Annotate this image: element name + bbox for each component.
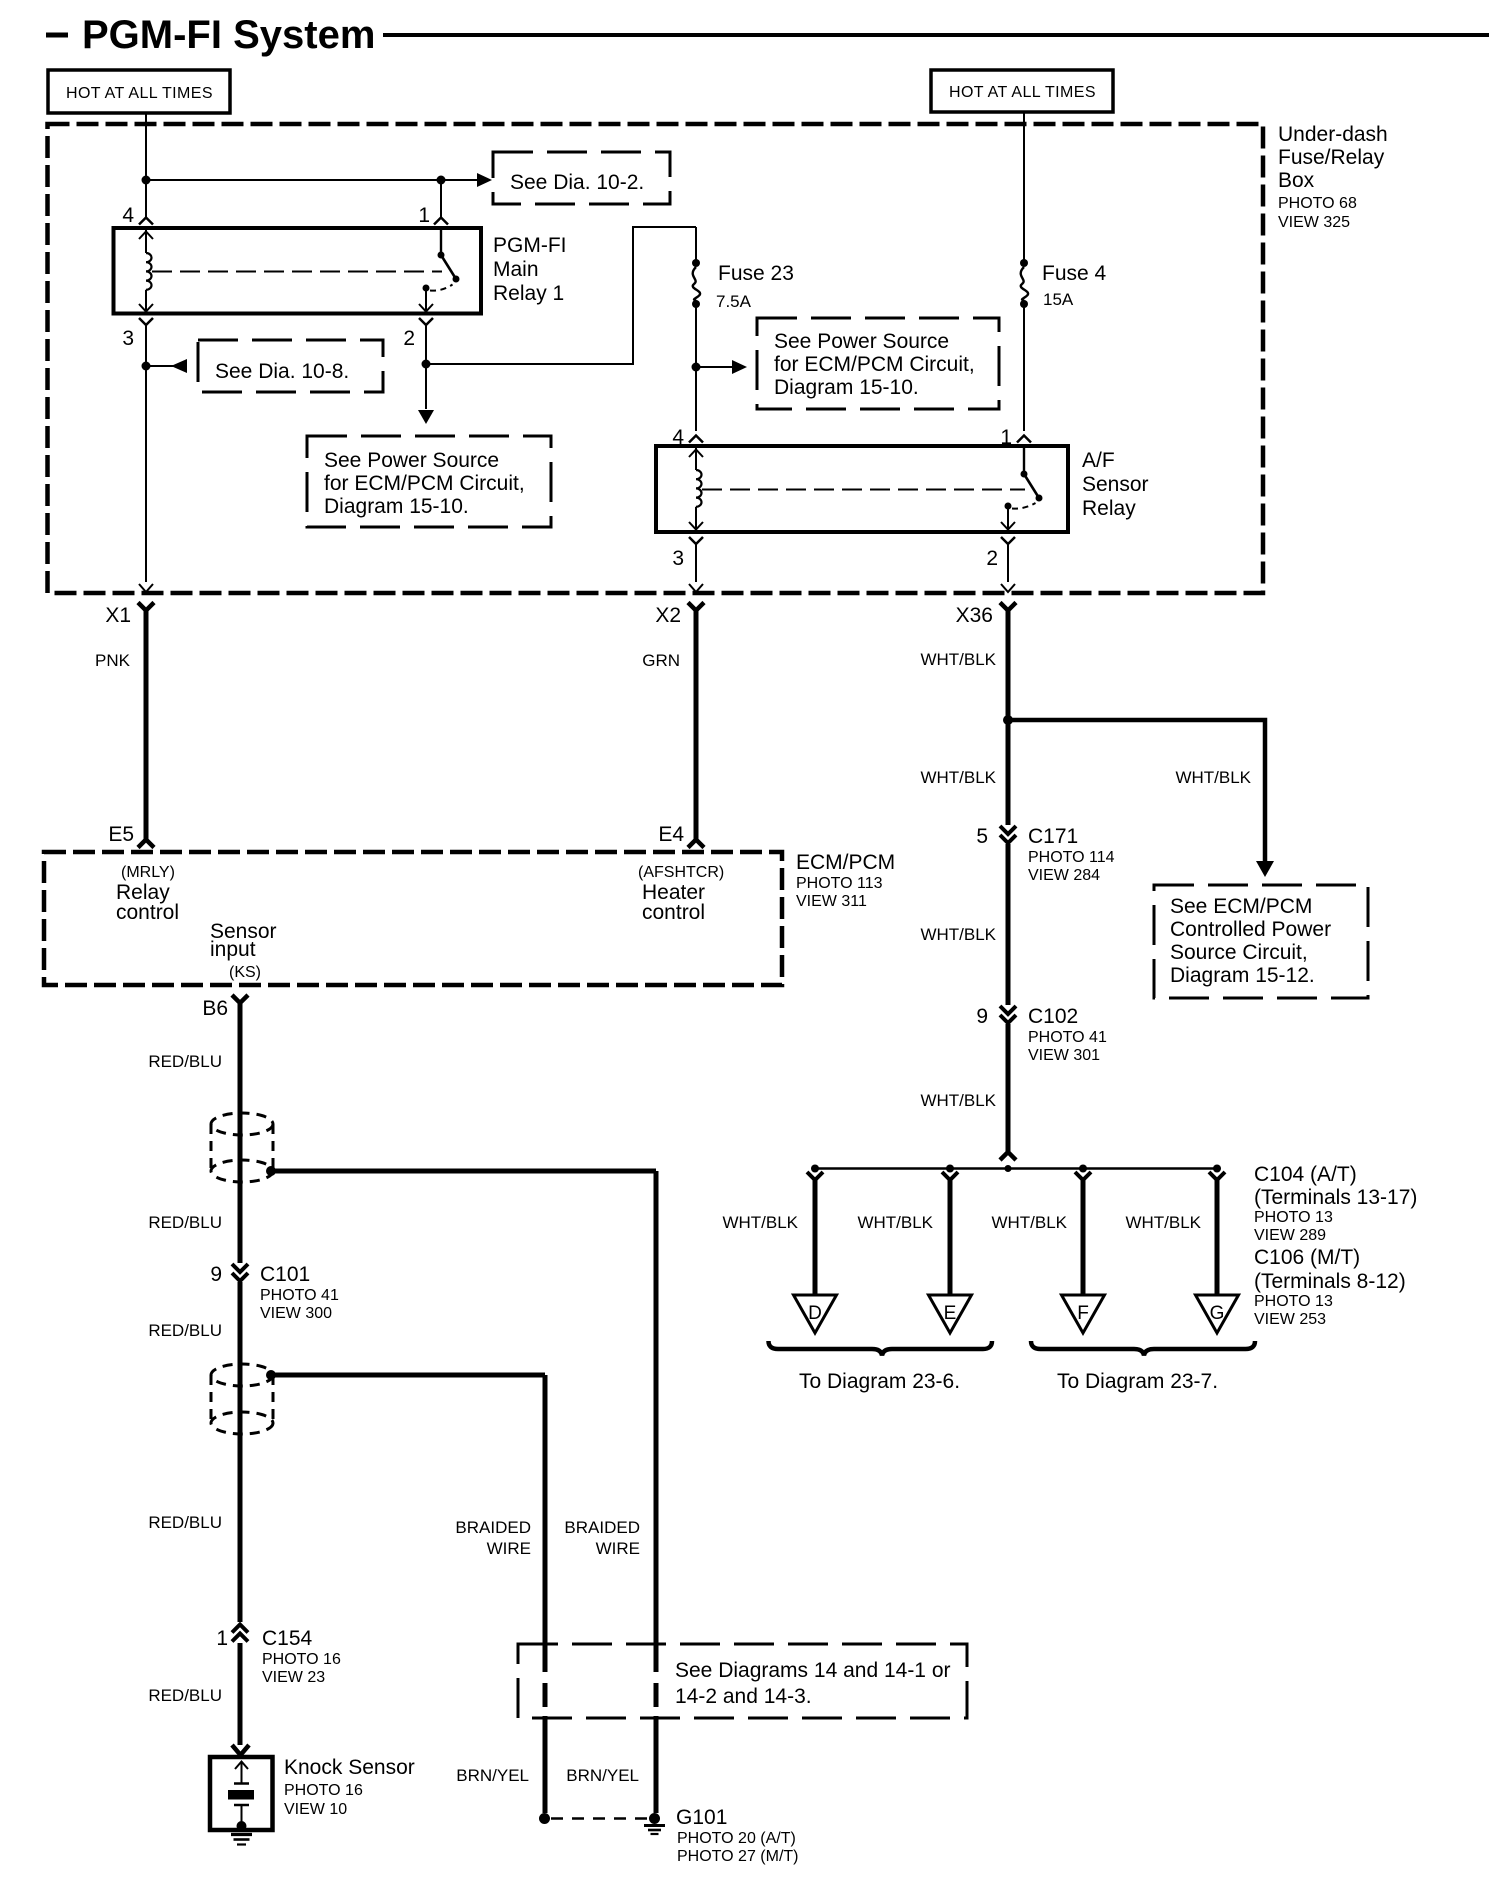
connector C101 pin 9 [232, 1264, 248, 1281]
svg-text:WHT/BLK: WHT/BLK [857, 1213, 933, 1232]
connector E5 [138, 840, 154, 848]
svg-text:2: 2 [986, 547, 998, 570]
svg-text:E5: E5 [108, 823, 134, 846]
svg-text:Relay 1: Relay 1 [493, 282, 564, 305]
distribution bus wire [815, 1167, 1217, 1170]
svg-text:WIRE: WIRE [596, 1539, 640, 1558]
svg-text:HOT AT ALL TIMES: HOT AT ALL TIMES [949, 84, 1096, 101]
svg-text:VIEW 289: VIEW 289 [1254, 1227, 1326, 1244]
svg-text:WIRE: WIRE [487, 1539, 531, 1558]
HOT AT ALL TIMES box 2 [931, 70, 1113, 112]
connector at knock sensor [232, 1745, 249, 1755]
shield 1 drain wire [271, 1171, 656, 1813]
svg-text:Source Circuit,: Source Circuit, [1170, 941, 1308, 964]
ECM/PCM module box [44, 852, 782, 985]
svg-text:1: 1 [216, 1627, 228, 1650]
relay label [493, 234, 567, 305]
svg-text:WHT/BLK: WHT/BLK [1175, 768, 1251, 787]
svg-text:RED/BLU: RED/BLU [148, 1321, 222, 1340]
wire B6 down RED/BLU [238, 1001, 243, 1263]
svg-text:PHOTO 68: PHOTO 68 [1278, 195, 1357, 212]
svg-text:PHOTO 27 (M/T): PHOTO 27 (M/T) [677, 1848, 799, 1865]
svg-text:Fuse 23: Fuse 23 [718, 262, 794, 285]
A/F pin 4 connector [689, 436, 703, 443]
G101 label [676, 1806, 799, 1865]
junction on pin-2 wire [422, 360, 431, 369]
svg-text:(MRLY): (MRLY) [121, 864, 175, 881]
svg-text:RED/BLU: RED/BLU [148, 1052, 222, 1071]
svg-text:WHT/BLK: WHT/BLK [920, 768, 996, 787]
junction shield 1 [266, 1166, 276, 1176]
svg-text:1: 1 [1000, 426, 1012, 449]
brace To Diagram 23-7 [1031, 1341, 1255, 1356]
relay coil K1 [139, 230, 153, 312]
svg-text:X2: X2 [655, 604, 681, 627]
branch connector E [942, 1172, 958, 1180]
wire A/F pin 2 to X36 [1007, 544, 1009, 582]
connector X1 [138, 603, 154, 611]
svg-text:control: control [642, 901, 705, 924]
svg-text:E: E [944, 1303, 957, 1324]
svg-text:B6: B6 [202, 997, 228, 1020]
connector at distribution tee [1000, 1152, 1016, 1160]
title dash [46, 33, 68, 38]
A/F relay internal dashed link [702, 489, 1025, 491]
under-dash fuse/relay box label [1278, 123, 1388, 231]
border arrow at X1 [139, 584, 153, 592]
wire HOT1 to main relay pin 4 [145, 113, 147, 217]
svg-text:X36: X36 [956, 604, 993, 627]
svg-text:Diagram 15-10.: Diagram 15-10. [324, 495, 469, 518]
svg-text:G: G [1210, 1303, 1225, 1324]
knock sensor ground [231, 1835, 252, 1845]
branch wire D WHT/BLK [813, 1178, 818, 1295]
wire A/F pin 3 to X2 [695, 544, 697, 582]
svg-text:2: 2 [403, 327, 415, 350]
See Diagrams 14 reference box [518, 1644, 967, 1718]
knock sensor box [210, 1757, 273, 1830]
svg-text:(Terminals 13-17): (Terminals 13-17) [1254, 1186, 1417, 1209]
under-dash fuse/relay box [48, 124, 1264, 593]
svg-text:To Diagram 23-7.: To Diagram 23-7. [1057, 1370, 1218, 1393]
svg-text:Diagram 15-10.: Diagram 15-10. [774, 376, 919, 399]
pin 1 connector [434, 218, 448, 225]
svg-text:Under-dash: Under-dash [1278, 123, 1388, 146]
branch connector G [1209, 1172, 1225, 1180]
wire C102 to distribution tee [1006, 1024, 1011, 1152]
svg-text:RED/BLU: RED/BLU [148, 1213, 222, 1232]
stub wire to See Dia. 10-8 [146, 365, 174, 367]
ground node left dot [539, 1813, 550, 1824]
svg-text:ECM/PCM: ECM/PCM [796, 851, 895, 874]
svg-text:PHOTO 13: PHOTO 13 [1254, 1293, 1333, 1310]
svg-text:Diagram 15-12.: Diagram 15-12. [1170, 964, 1315, 987]
junction D [811, 1165, 819, 1173]
svg-text:PHOTO 114: PHOTO 114 [1028, 849, 1115, 866]
off-page arrow G [1196, 1295, 1239, 1333]
svg-text:A/F: A/F [1082, 449, 1115, 472]
branch connector D [807, 1172, 823, 1180]
title rule [383, 33, 1489, 37]
HOT AT ALL TIMES box 1 [48, 70, 230, 113]
svg-text:4: 4 [672, 426, 684, 449]
svg-text:PGM-FI: PGM-FI [493, 234, 567, 257]
svg-text:G101: G101 [676, 1806, 727, 1829]
branch connector F [1075, 1172, 1091, 1180]
svg-text:See Dia. 10-8.: See Dia. 10-8. [215, 360, 349, 383]
svg-text:PHOTO 113: PHOTO 113 [796, 875, 883, 892]
C104/C106 connector note [1254, 1163, 1417, 1328]
A/F relay switch contacts [1005, 448, 1043, 510]
wire X36 down WHT/BLK [1006, 610, 1011, 825]
A/F pin 2 internal wire [1001, 506, 1015, 530]
svg-text:See ECM/PCM: See ECM/PCM [1170, 895, 1312, 918]
svg-text:PHOTO 41: PHOTO 41 [1028, 1029, 1107, 1046]
relay PGM-FI Main Relay 1 box [114, 228, 482, 314]
svg-text:VIEW 300: VIEW 300 [260, 1305, 332, 1322]
svg-text:Box: Box [1278, 169, 1315, 192]
svg-text:BRN/YEL: BRN/YEL [566, 1766, 639, 1785]
pin 2 connector [419, 318, 433, 325]
knock sensor piezo element [228, 1762, 254, 1832]
svg-text:WHT/BLK: WHT/BLK [722, 1213, 798, 1232]
C154 label [262, 1627, 341, 1686]
svg-text:C102: C102 [1028, 1005, 1078, 1028]
svg-text:input: input [210, 938, 256, 961]
svg-text:1: 1 [418, 204, 430, 227]
svg-text:Knock Sensor: Knock Sensor [284, 1756, 415, 1779]
junction G [1213, 1165, 1221, 1173]
svg-text:D: D [808, 1303, 822, 1324]
See ECM/PCM Controlled Power Source reference box [1154, 885, 1368, 998]
relay internal dashed link [152, 271, 442, 273]
branch wire G WHT/BLK [1215, 1178, 1220, 1295]
svg-text:9: 9 [976, 1005, 988, 1028]
connector X36 [1000, 603, 1016, 611]
See Dia. 10-8 reference box [198, 340, 383, 392]
svg-text:HOT AT ALL TIMES: HOT AT ALL TIMES [66, 85, 213, 102]
See Dia. 10-2 reference box [493, 152, 670, 204]
svg-text:Fuse 4: Fuse 4 [1042, 262, 1107, 285]
shield 2 drain wire [271, 1375, 545, 1813]
wire X2 to E4 GRN [694, 610, 699, 840]
pin 4 connector [139, 218, 153, 225]
wire junction to pin 1 [440, 180, 442, 217]
dashed ground link [551, 1817, 648, 1820]
svg-text:7.5A: 7.5A [716, 292, 752, 311]
connector C102 pin 9 [1000, 1006, 1016, 1023]
svg-text:C101: C101 [260, 1263, 310, 1286]
svg-text:C171: C171 [1028, 825, 1078, 848]
svg-text:Controlled Power: Controlled Power [1170, 918, 1331, 941]
connector C171 pin 5 [1000, 826, 1016, 843]
svg-text:5: 5 [976, 825, 988, 848]
ECM/PCM label [796, 851, 895, 910]
off-page arrow F [1062, 1295, 1105, 1333]
svg-text:RED/BLU: RED/BLU [148, 1513, 222, 1532]
svg-text:for ECM/PCM Circuit,: for ECM/PCM Circuit, [774, 353, 975, 376]
wire X1 to E5 PNK [144, 610, 149, 840]
fuse F4 value label [1042, 262, 1107, 309]
junction above pin 1 [437, 176, 446, 185]
brace To Diagram 23-6 [769, 1341, 993, 1356]
svg-text:VIEW 284: VIEW 284 [1028, 867, 1100, 884]
svg-text:3: 3 [122, 327, 134, 350]
knock sensor label [284, 1756, 415, 1818]
junction F [1079, 1165, 1087, 1173]
svg-text:control: control [116, 901, 179, 924]
branch wire to ECM/PCM power note [1008, 720, 1265, 861]
svg-text:(AFSHTCR): (AFSHTCR) [638, 864, 724, 881]
svg-text:for ECM/PCM Circuit,: for ECM/PCM Circuit, [324, 472, 525, 495]
svg-text:PNK: PNK [95, 651, 131, 670]
BRAIDED WIRE label right [564, 1518, 640, 1558]
A/F pin 2 connector [1001, 537, 1015, 544]
svg-text:VIEW 23: VIEW 23 [262, 1669, 325, 1686]
wire C154 to knock sensor [238, 1643, 243, 1745]
off-page arrow D [794, 1295, 837, 1333]
wire C171 to C102 [1006, 844, 1011, 1005]
ground node right dot [649, 1813, 660, 1824]
svg-text:F: F [1077, 1303, 1089, 1324]
arrow into See ECM/PCM box [1256, 861, 1274, 877]
svg-text:X1: X1 [105, 604, 131, 627]
svg-text:PGM-FI System: PGM-FI System [82, 13, 375, 57]
See Power Source right reference box [757, 318, 999, 409]
svg-text:BRAIDED: BRAIDED [564, 1518, 640, 1537]
border arrow at X36 [1001, 584, 1015, 592]
wire HOT2 to fuse 4 [1023, 112, 1025, 263]
arrow into See Power Source (left) [418, 410, 434, 424]
A/F relay label [1082, 449, 1149, 520]
AFSHTCR heater control pin label [638, 864, 724, 924]
relay A/F Sensor Relay box [656, 446, 1068, 532]
junction center [1005, 1165, 1012, 1172]
svg-text:PHOTO 41: PHOTO 41 [260, 1287, 339, 1304]
wire node A to See Dia. 10-2 [146, 179, 478, 181]
relay pin 2 internal wire [419, 288, 433, 312]
svg-text:PHOTO 20 (A/T): PHOTO 20 (A/T) [677, 1830, 796, 1847]
connector X2 [688, 603, 704, 611]
See Power Source left reference box [307, 436, 551, 527]
junction E [946, 1165, 954, 1173]
stub wire to See Power Source (right) [696, 366, 732, 368]
shield cylinder 1 [211, 1113, 273, 1182]
arrow from See Dia. 10-8 [171, 359, 187, 373]
svg-text:VIEW 253: VIEW 253 [1254, 1311, 1326, 1328]
arrow to See Dia. 10-2 [477, 173, 492, 187]
svg-text:Relay: Relay [1082, 497, 1136, 520]
svg-text:3: 3 [672, 547, 684, 570]
wire pin 2 down [425, 325, 427, 409]
A/F pin 3 connector [689, 537, 703, 544]
connector B6 [232, 995, 248, 1003]
fuse F23 [692, 227, 700, 431]
C102 label [1028, 1005, 1107, 1064]
svg-text:14-2 and 14-3.: 14-2 and 14-3. [675, 1685, 812, 1708]
fuse F23 value label [716, 262, 794, 311]
A/F pin 1 connector [1017, 436, 1031, 443]
relay switch contacts [423, 230, 460, 292]
sensor input KS pin label [210, 920, 277, 981]
svg-text:WHT/BLK: WHT/BLK [920, 650, 996, 669]
BRAIDED WIRE label left [455, 1518, 531, 1558]
junction shield 2 [266, 1370, 276, 1380]
wire C101 to shield RED/BLU [238, 1282, 243, 1622]
C101 label [260, 1263, 339, 1322]
svg-text:See Power Source: See Power Source [324, 449, 499, 472]
ground G101 symbol [644, 1826, 665, 1835]
svg-text:(Terminals 8-12): (Terminals 8-12) [1254, 1270, 1406, 1293]
pin 3 connector [139, 318, 153, 325]
svg-text:C106 (M/T): C106 (M/T) [1254, 1246, 1360, 1269]
connector C154 pin 1 [232, 1625, 248, 1642]
svg-text:See Dia. 10-2.: See Dia. 10-2. [510, 171, 644, 194]
connector E4 [688, 840, 704, 848]
svg-text:GRN: GRN [642, 651, 680, 670]
svg-text:WHT/BLK: WHT/BLK [920, 925, 996, 944]
svg-text:See Power Source: See Power Source [774, 330, 949, 353]
svg-text:Main: Main [493, 258, 539, 281]
svg-text:Fuse/Relay: Fuse/Relay [1278, 146, 1385, 169]
svg-text:PHOTO 16: PHOTO 16 [284, 1782, 363, 1799]
svg-text:15A: 15A [1043, 290, 1074, 309]
off-page arrow E [929, 1295, 972, 1333]
svg-text:4: 4 [122, 204, 134, 227]
svg-text:VIEW 325: VIEW 325 [1278, 214, 1350, 231]
svg-text:C104 (A/T): C104 (A/T) [1254, 1163, 1357, 1186]
svg-text:VIEW 311: VIEW 311 [796, 893, 867, 910]
svg-text:WHT/BLK: WHT/BLK [991, 1213, 1067, 1232]
svg-text:RED/BLU: RED/BLU [148, 1686, 222, 1705]
svg-text:See Diagrams 14 and 14-1 or: See Diagrams 14 and 14-1 or [675, 1659, 951, 1682]
wire pin 2 to Fuse 23 [426, 227, 696, 364]
shield cylinder 2 [211, 1364, 273, 1434]
svg-text:WHT/BLK: WHT/BLK [1125, 1213, 1201, 1232]
junction on pin-3 wire [142, 362, 151, 371]
svg-text:VIEW 301: VIEW 301 [1028, 1047, 1100, 1064]
svg-text:Sensor: Sensor [1082, 473, 1149, 496]
junction on X36 wire [1003, 715, 1013, 725]
junction below fuse 23 [692, 363, 701, 372]
MRLY relay control pin label [116, 864, 179, 924]
svg-text:(KS): (KS) [229, 964, 261, 981]
C171 label [1028, 825, 1115, 884]
A/F relay coil [689, 448, 703, 530]
svg-text:BRN/YEL: BRN/YEL [456, 1766, 529, 1785]
svg-text:VIEW 10: VIEW 10 [284, 1801, 347, 1818]
border arrow at X2 [689, 584, 703, 592]
junction node A [142, 176, 151, 185]
svg-text:9: 9 [210, 1263, 222, 1286]
svg-text:To Diagram 23-6.: To Diagram 23-6. [799, 1370, 960, 1393]
svg-text:PHOTO 13: PHOTO 13 [1254, 1209, 1333, 1226]
svg-text:PHOTO 16: PHOTO 16 [262, 1651, 341, 1668]
branch wire E WHT/BLK [948, 1178, 953, 1295]
svg-text:WHT/BLK: WHT/BLK [920, 1091, 996, 1110]
svg-text:BRAIDED: BRAIDED [455, 1518, 531, 1537]
branch wire F WHT/BLK [1081, 1178, 1086, 1295]
svg-text:C154: C154 [262, 1627, 313, 1650]
fuse F4 [1020, 259, 1028, 431]
wire pin 3 to X1 [145, 325, 147, 582]
arrow into See Power Source (right) [732, 360, 747, 374]
svg-text:E4: E4 [658, 823, 684, 846]
